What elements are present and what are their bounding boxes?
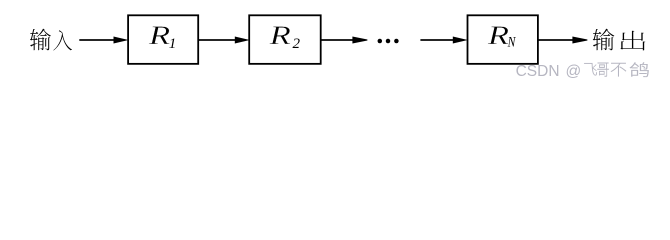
svg-text:R: R bbox=[268, 20, 290, 50]
svg-text:@: @ bbox=[566, 63, 582, 80]
svg-text:R: R bbox=[487, 20, 509, 50]
svg-text:2: 2 bbox=[293, 36, 301, 52]
svg-text:N: N bbox=[507, 33, 517, 49]
svg-text:1: 1 bbox=[169, 36, 177, 52]
svg-text:CSDN: CSDN bbox=[516, 63, 560, 80]
svg-text:R: R bbox=[148, 20, 170, 50]
